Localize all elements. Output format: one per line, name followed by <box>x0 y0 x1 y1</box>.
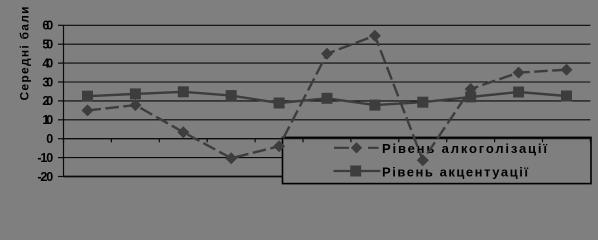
svg-text:0: 0 <box>46 132 53 146</box>
category axis at 0 with ticks <box>64 139 591 143</box>
svg-text:Рівень алкоголізації: Рівень алкоголізації <box>382 141 547 156</box>
y axis labels <box>37 19 53 184</box>
svg-text:30: 30 <box>42 75 53 89</box>
svg-text:Середні бали: Середні бали <box>18 7 32 101</box>
gridlines <box>64 25 591 176</box>
diamond markers: Рівень алкоголізації <box>81 30 572 167</box>
svg-text:60: 60 <box>42 19 53 33</box>
svg-text:10: 10 <box>42 113 53 127</box>
y axis <box>58 25 64 176</box>
svg-text:40: 40 <box>42 56 53 70</box>
series line: Рівень алкоголізації (dashed) <box>88 36 567 161</box>
svg-text:-20: -20 <box>37 170 53 184</box>
square markers: Рівень акцентуації <box>82 86 572 110</box>
series line: Рівень акцентуації (solid) <box>88 92 567 105</box>
svg-text:20: 20 <box>42 94 53 108</box>
svg-text:-10: -10 <box>37 151 53 165</box>
legend key 1: dashed line + diamond sample <box>334 142 379 153</box>
chart background <box>0 0 598 191</box>
legend key 2: solid line + square sample <box>334 166 381 177</box>
svg-text:50: 50 <box>42 38 53 52</box>
legend box <box>283 137 592 183</box>
